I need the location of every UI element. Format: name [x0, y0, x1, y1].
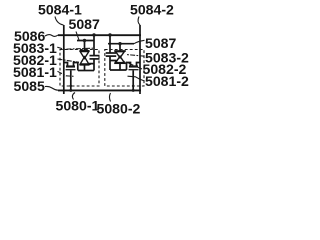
svg-text:5081-2: 5081-2	[145, 73, 189, 89]
svg-text:5087: 5087	[69, 16, 101, 32]
svg-text:5080-1: 5080-1	[56, 97, 100, 113]
svg-text:5080-2: 5080-2	[97, 100, 141, 116]
svg-text:5085: 5085	[14, 78, 46, 94]
svg-text:5084-2: 5084-2	[130, 1, 174, 17]
